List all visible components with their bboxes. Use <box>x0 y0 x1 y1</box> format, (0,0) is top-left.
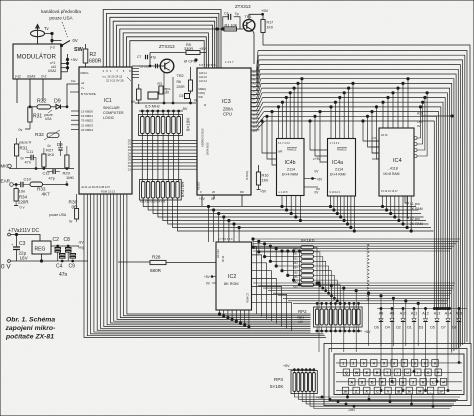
svg-text:IC4: IC4 <box>393 158 402 164</box>
svg-text:pouze USA: pouze USA <box>49 213 67 217</box>
svg-text:A13 12: A13 12 <box>199 80 208 83</box>
wires pack1 to pack2 <box>141 134 143 182</box>
svg-text:4 7 5 8 3 6 9: 4 7 5 8 3 6 9 <box>218 237 233 241</box>
svg-text:1K RAM: 1K RAM <box>410 207 423 211</box>
data bus from 470R pack <box>143 198 416 207</box>
svg-text:9×1K0: 9×1K0 <box>301 238 315 243</box>
svg-text:(+3: (+3 <box>50 46 55 50</box>
svg-text:N: N <box>408 389 411 393</box>
svg-text:+: + <box>11 242 14 247</box>
svg-text:ZTX313: ZTX313 <box>235 4 251 9</box>
svg-text:18 16: 18 16 <box>381 133 388 137</box>
svg-text:9: 9 <box>200 190 202 194</box>
svg-text:30 41: 30 41 <box>222 255 225 262</box>
svg-text:USA2: USA2 <box>48 69 57 73</box>
svg-text:+5V: +5V <box>71 57 79 62</box>
svg-text:C2: C2 <box>53 237 60 243</box>
svg-text:KB1: KB1 <box>293 253 298 256</box>
diode D8 <box>457 319 461 322</box>
IC4 left pins <box>372 140 379 142</box>
IC4 right pins with bubbles <box>414 137 417 140</box>
RP3 bottom wires <box>294 392 460 398</box>
svg-text:C4: C4 <box>56 264 63 270</box>
svg-text:KB3: KB3 <box>293 262 298 265</box>
svg-text:KB7: KB7 <box>293 281 298 284</box>
svg-text:0v: 0v <box>69 220 73 224</box>
svg-text:3: 3 <box>363 362 365 366</box>
kb bus staircase to 9x1K0 left pins <box>253 239 301 247</box>
svg-text:C8: C8 <box>64 237 71 243</box>
bus left jog from IC3 pins <box>251 51 258 72</box>
svg-text:R32: R32 <box>35 132 44 138</box>
svg-text:WR: WR <box>199 96 203 99</box>
bus taps to IC4 left pins <box>363 121 379 141</box>
svg-text:u0 41 u2 30 26 9 28 24 5: u0 41 u2 30 26 9 28 24 5 <box>81 185 110 189</box>
svg-text:C9: C9 <box>69 264 76 270</box>
svg-text:RESET: RESET <box>197 181 201 190</box>
svg-text:1 7 4 3 2: 1 7 4 3 2 <box>330 142 340 145</box>
resistor R33 4K7 <box>30 182 43 187</box>
svg-text:S: S <box>361 381 364 385</box>
svg-text:2: 2 <box>352 362 354 366</box>
data bus taps IC4 bottom <box>382 196 384 207</box>
diode D4 <box>390 319 394 322</box>
RP2 top pins <box>316 303 318 309</box>
svg-text:IC4a: IC4a <box>332 160 343 166</box>
svg-text:KB4: KB4 <box>293 267 298 270</box>
svg-text:ADDRESS BUS: ADDRESS BUS <box>201 128 205 147</box>
resistor R29 1M0 <box>65 155 69 168</box>
svg-text:220R: 220R <box>18 200 29 205</box>
svg-text:D8: D8 <box>452 326 457 330</box>
svg-text:R17: R17 <box>267 21 274 25</box>
IC1 Sinclair Computer Logic <box>79 67 132 194</box>
diode feed rail <box>377 308 467 310</box>
svg-text:13 KBD0: 13 KBD0 <box>81 110 93 114</box>
wire phi CPU line to TR1 base <box>120 29 243 67</box>
bus taps to IC4 top <box>382 102 384 128</box>
svg-text:IC2: IC2 <box>228 274 236 280</box>
svg-text:0v: 0v <box>48 144 52 148</box>
svg-text:ROM CS: ROM CS <box>247 293 250 303</box>
transistor TR1 <box>243 19 255 31</box>
svg-text:0V: 0V <box>211 197 216 201</box>
svg-text:4: 4 <box>373 362 375 366</box>
svg-text:R3: R3 <box>158 82 162 86</box>
svg-text:680R: 680R <box>89 59 102 65</box>
svg-text:D1: D1 <box>407 326 412 330</box>
svg-text:D7: D7 <box>441 326 446 330</box>
IC3 Z80A CPU <box>197 68 251 195</box>
svg-text:...4118: ...4118 <box>387 167 398 171</box>
svg-text:MREQ: MREQ <box>199 88 207 91</box>
svg-text:C12: C12 <box>43 172 50 176</box>
IC1 kbd input stubs <box>71 110 79 112</box>
svg-text:0V: 0V <box>131 100 136 104</box>
svg-text:T: T <box>386 371 389 375</box>
svg-text:2114: 2114 <box>287 168 295 172</box>
svg-text:0 v: 0 v <box>20 206 25 210</box>
svg-text:+KB1: +KB1 <box>348 408 355 412</box>
svg-text:+5V: +5V <box>204 275 211 279</box>
svg-text:kanálová předvolba: kanálová předvolba <box>41 9 81 14</box>
svg-text:13 14 15 16 17: 13 14 15 16 17 <box>381 190 398 193</box>
svg-text:+5V: +5V <box>199 47 206 51</box>
svg-text:SINCLAIR: SINCLAIR <box>103 106 120 110</box>
svg-text:22 0 21 0V 28: 22 0 21 0V 28 <box>106 79 124 83</box>
svg-text:5: 5 <box>123 69 125 73</box>
svg-text:KB6: KB6 <box>293 276 298 279</box>
svg-text:CS: CS <box>373 136 377 140</box>
resistor R31 upper <box>28 107 32 122</box>
svg-text:1M0: 1M0 <box>66 175 75 180</box>
svg-text:2+2: 2+2 <box>41 75 47 79</box>
svg-text:-5V: -5V <box>182 107 188 111</box>
svg-text:-5V: -5V <box>78 241 84 245</box>
svg-text:+5V: +5V <box>261 8 269 13</box>
svg-text:IC1: IC1 <box>104 98 112 104</box>
data bus taps to IC2 top <box>208 207 210 243</box>
bus taps to IC4b left pins <box>262 121 277 153</box>
IC2 8K ROM <box>216 242 252 310</box>
capacitor C4 <box>60 254 66 256</box>
svg-text:10a: 10a <box>71 79 76 83</box>
svg-text:23 KBD4: 23 KBD4 <box>81 128 93 132</box>
svg-text:MODULÁTOR: MODULÁTOR <box>17 54 57 61</box>
svg-text:RP2: RP2 <box>298 309 307 314</box>
address bus A0-A15 from IC3 right <box>251 70 260 72</box>
svg-text:1K×4 RAM: 1K×4 RAM <box>282 173 299 177</box>
svg-text:DATA BUS: DATA BUS <box>206 142 210 155</box>
svg-text:C5: C5 <box>179 94 183 98</box>
kb bus lines mid <box>253 238 460 240</box>
svg-text:KB0: KB0 <box>293 248 298 251</box>
svg-text:A14 10: A14 10 <box>199 76 208 79</box>
svg-text:B: B <box>397 389 400 393</box>
svg-text:+5V: +5V <box>283 364 290 368</box>
svg-text:⏎: ⏎ <box>442 381 446 385</box>
svg-text:5: 5 <box>383 362 385 366</box>
svg-text:C3: C3 <box>19 241 26 247</box>
svg-text:A0-A12: A0-A12 <box>216 249 220 258</box>
svg-text:TR1: TR1 <box>245 15 252 19</box>
svg-text:u2: u2 <box>81 81 85 85</box>
svg-text:W: W <box>355 371 359 375</box>
svg-text:1K0: 1K0 <box>262 179 269 183</box>
diode D5 <box>435 319 439 322</box>
svg-text:X: X <box>366 389 369 393</box>
capacitor C1 bridge <box>223 17 229 29</box>
resistor R16 1K0 <box>256 172 260 185</box>
power rail wire <box>11 235 41 242</box>
wire TR1 emitter <box>249 14 263 19</box>
diode D7 <box>446 319 450 322</box>
svg-text:(+)2: (+)2 <box>15 75 21 79</box>
resistor R31 lower <box>15 144 19 156</box>
wire modulator bottom pins <box>16 79 18 103</box>
svg-text:RAMCS: RAMCS <box>337 148 347 152</box>
ground 0v under R34 <box>14 205 18 207</box>
svg-text:KB2: KB2 <box>293 257 298 260</box>
svg-text:8×10K: 8×10K <box>186 117 191 131</box>
wire R28 to IC2 <box>118 261 150 263</box>
9x1K0 right pins to kb feed lines <box>314 247 318 283</box>
svg-text:LOGIC: LOGIC <box>103 116 115 120</box>
svg-text:u 1 10 5: u 1 10 5 <box>279 191 289 194</box>
svg-text:R: R <box>376 371 379 375</box>
svg-text:7: 7 <box>116 69 118 73</box>
switch SW <box>62 41 71 46</box>
svg-text:B TA/TAPE: B TA/TAPE <box>81 92 96 96</box>
svg-text:K: K <box>422 381 425 385</box>
svg-text:IORQ: IORQ <box>199 92 205 95</box>
svg-text:D6: D6 <box>374 326 379 330</box>
diode D3 <box>423 319 427 322</box>
IC2 right pins join lower nest <box>252 247 257 314</box>
modulator box <box>13 44 61 79</box>
svg-text:47n: 47n <box>59 272 68 278</box>
svg-text:47p: 47p <box>151 56 157 60</box>
svg-text:WR: WR <box>278 150 282 154</box>
keyboard feed bus lines <box>253 282 455 284</box>
svg-text:8: 8 <box>129 69 131 73</box>
resistor R17 1K0 <box>261 20 265 33</box>
svg-text:D9: D9 <box>57 142 63 147</box>
svg-text:IC3: IC3 <box>222 99 231 105</box>
svg-text:Q: Q <box>345 371 348 375</box>
svg-text:užit: užit <box>164 91 169 95</box>
IC1 bottom wires down to nest <box>84 194 326 338</box>
svg-text:V: V <box>387 389 390 393</box>
svg-text:5×10K: 5×10K <box>270 384 284 389</box>
svg-text:RD: RD <box>240 190 244 194</box>
svg-text:Z: Z <box>355 389 358 393</box>
svg-text:SH: SH <box>344 389 348 393</box>
svg-text:7: 7 <box>403 362 405 366</box>
svg-text:P: P <box>437 371 440 375</box>
diode D2 <box>401 319 405 322</box>
wire TR2 emitter down <box>163 73 165 104</box>
bus taps to IC4a left pins <box>310 121 328 150</box>
svg-text:BUSRQ: BUSRQ <box>246 171 249 180</box>
svg-text:79 KBD2: 79 KBD2 <box>81 119 93 123</box>
resistor pack 8x10K <box>139 115 183 136</box>
svg-text:21 KBD3: 21 KBD3 <box>81 123 93 127</box>
svg-text:Y: Y <box>396 371 399 375</box>
svg-text:47n: 47n <box>25 161 31 165</box>
svg-text:26: 26 <box>212 190 216 194</box>
svg-text:0V: 0V <box>315 191 320 195</box>
svg-text:RP3: RP3 <box>274 377 283 382</box>
data bus taps IC4b bottom <box>281 196 283 207</box>
video line to right edge <box>263 36 470 344</box>
svg-text:+5V: +5V <box>364 330 371 334</box>
svg-text:1 4 2 7: 1 4 2 7 <box>225 60 234 64</box>
svg-text:počítače ZX-81: počítače ZX-81 <box>5 334 54 341</box>
svg-text:0V: 0V <box>73 38 78 43</box>
svg-text:0V: 0V <box>417 124 421 128</box>
svg-text:E: E <box>366 371 369 375</box>
svg-text:R2: R2 <box>90 52 97 58</box>
keyboard bottom connections <box>347 394 349 397</box>
svg-text:7p: 7p <box>235 12 239 16</box>
svg-text:0V: 0V <box>206 282 211 286</box>
svg-text:pouze USA: pouze USA <box>49 16 73 21</box>
bus IC1 right to IC3 left grid <box>132 139 197 141</box>
IC2 bottom pins to bus <box>219 310 221 314</box>
svg-text:9 10 12 4: 9 10 12 4 <box>330 191 341 194</box>
svg-text:C10: C10 <box>24 177 32 182</box>
svg-text:D9: D9 <box>54 99 61 105</box>
svg-text:47p: 47p <box>49 177 55 181</box>
svg-text:A15 11: A15 11 <box>199 72 207 75</box>
TV antenna <box>31 30 45 36</box>
bus IC1 right upper wires <box>132 68 139 70</box>
svg-text:8K ROM: 8K ROM <box>224 282 239 286</box>
svg-text:C6 2x2: C6 2x2 <box>140 65 150 69</box>
bus taps to IC4a top <box>330 107 332 139</box>
edge connector chevrons <box>367 244 369 246</box>
svg-text:SW: SW <box>74 47 84 53</box>
IC4a 2114 RAM <box>328 139 356 197</box>
svg-text:ROM CS 13: ROM CS 13 <box>101 190 116 194</box>
keyboard outer frames <box>324 344 471 406</box>
svg-text:0: 0 <box>434 362 436 366</box>
resistor R34 220R <box>14 189 18 202</box>
svg-text:RAMCS: RAMCS <box>287 148 297 152</box>
IC4b right pins +5V 0V <box>304 178 316 180</box>
svg-text:0 V: 0 V <box>1 264 11 271</box>
svg-text:1: 1 <box>110 69 112 73</box>
svg-text:REG: REG <box>35 247 46 253</box>
svg-text:R28: R28 <box>152 255 161 260</box>
power rail -5V above pack <box>139 110 183 112</box>
svg-text:0V: 0V <box>315 170 320 174</box>
data bus taps IC4a bottom <box>330 196 332 207</box>
svg-text:1K×4 RAM: 1K×4 RAM <box>330 173 346 177</box>
bus taps to IC4b top <box>278 107 280 139</box>
svg-text:R6: R6 <box>177 80 181 84</box>
RP2 bottom rail +5V <box>315 330 362 332</box>
svg-text:D: D <box>371 381 374 385</box>
svg-text:1K×8 RAM: 1K×8 RAM <box>383 172 400 176</box>
svg-text:10n: 10n <box>19 189 26 194</box>
wire TR2 base <box>132 65 160 67</box>
svg-text:M: M <box>418 389 421 393</box>
svg-text:L: L <box>432 381 435 385</box>
svg-text:.: . <box>430 389 431 393</box>
keyboard rows <box>336 362 462 364</box>
svg-text:R31: R31 <box>33 114 42 120</box>
svg-text:C: C <box>376 389 379 393</box>
svg-text:COMPUTER: COMPUTER <box>103 111 124 115</box>
svg-text:SP: SP <box>439 389 443 393</box>
svg-text:0v: 0v <box>19 128 23 132</box>
svg-text:IC4b: IC4b <box>285 160 296 166</box>
svg-text:2114: 2114 <box>335 168 343 172</box>
svg-text:nepo-: nepo- <box>297 316 305 320</box>
keyboard column wires <box>380 344 382 392</box>
svg-text:≥+5V: ≥+5V <box>313 157 321 161</box>
svg-text:16V: 16V <box>20 256 29 261</box>
svg-text:KB5: KB5 <box>293 271 298 274</box>
IC4 4118 RAM <box>379 128 414 196</box>
svg-text:Tv: Tv <box>44 26 50 31</box>
svg-text:CPU: CPU <box>223 112 232 117</box>
resistor pack 8x470R <box>140 180 182 201</box>
svg-text:TR2: TR2 <box>177 74 184 78</box>
svg-text:F: F <box>381 381 384 385</box>
REG output rail <box>51 245 79 247</box>
svg-text:u: u <box>204 102 206 107</box>
svg-text:1K0: 1K0 <box>47 152 55 157</box>
svg-text:D3: D3 <box>419 326 424 330</box>
svg-text:C7: C7 <box>137 55 141 59</box>
svg-text:R16: R16 <box>262 174 269 178</box>
svg-text:O: O <box>427 371 430 375</box>
keyboard column staircase from kb lines <box>318 282 320 284</box>
svg-text:zapojení mikro-: zapojení mikro- <box>5 325 57 332</box>
svg-text:1K0: 1K0 <box>267 26 273 30</box>
bus IC1 top to IC3 top <box>103 10 221 69</box>
svg-text:6: 6 <box>106 69 108 73</box>
svg-text:+5V: +5V <box>260 190 267 194</box>
IC4b 2114 RAM <box>277 139 305 196</box>
wire EAR R29 junction <box>66 181 68 185</box>
power input terminal <box>8 233 11 236</box>
svg-text:A: A <box>350 381 353 385</box>
svg-text:pouze Fr: pouze Fr <box>19 141 33 145</box>
svg-text:6 8 7 9 3 5 7k: 6 8 7 9 3 5 7k <box>199 63 217 67</box>
svg-text:19 KBD1: 19 KBD1 <box>81 114 93 118</box>
RP2 resistor pack <box>314 307 363 327</box>
svg-text:6: 6 <box>393 362 395 366</box>
svg-text:4K7: 4K7 <box>42 192 51 197</box>
keyboard inner frame <box>334 354 464 395</box>
L1 L2 RAM notes <box>405 196 409 203</box>
svg-text:USA3: USA3 <box>27 75 36 79</box>
diode D1 <box>412 319 416 322</box>
modulator pins right <box>61 62 68 64</box>
capacitor C9 <box>70 254 76 256</box>
svg-text:D2: D2 <box>396 326 401 330</box>
svg-text:užit: užit <box>298 320 303 324</box>
svg-text:680R: 680R <box>150 268 162 273</box>
svg-text:D4: D4 <box>385 326 390 330</box>
svg-text:U: U <box>406 371 409 375</box>
resistor R2 <box>83 49 88 63</box>
svg-text:R32: R32 <box>37 99 47 105</box>
IC3 bottom pin wires <box>201 195 203 206</box>
svg-text:3: 3 <box>102 69 104 73</box>
svg-text:RMCL: RMCL <box>81 71 90 75</box>
ground rail 0V <box>8 260 11 263</box>
svg-text:+5V: +5V <box>317 178 324 182</box>
REG box <box>32 241 51 254</box>
svg-text:I: I <box>417 371 418 375</box>
svg-text:6 1 7 4 3 2: 6 1 7 4 3 2 <box>278 142 290 145</box>
diode D6 <box>379 319 383 322</box>
svg-text:D1: D1 <box>128 168 132 171</box>
svg-text:D5: D5 <box>430 326 435 330</box>
svg-text:220R: 220R <box>177 85 186 89</box>
svg-text:6,5 MHz: 6,5 MHz <box>145 104 160 109</box>
wire TR1 collector <box>252 30 254 64</box>
IC4 right pin wires up to bus <box>417 107 420 138</box>
svg-text:J: J <box>412 381 414 385</box>
svg-text:Obr. 1. Schéma: Obr. 1. Schéma <box>6 317 55 324</box>
wire 0V to switch <box>45 34 53 45</box>
